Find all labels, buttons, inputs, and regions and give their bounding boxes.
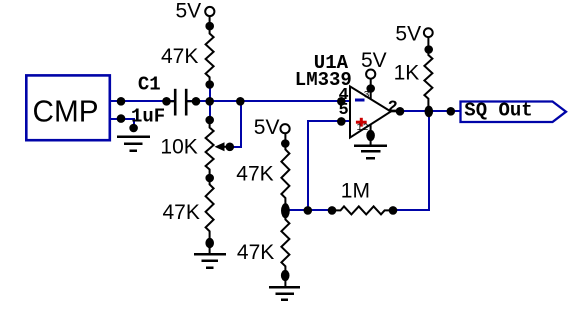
svg-text:47K: 47K — [237, 241, 274, 264]
svg-text:10K: 10K — [160, 136, 197, 159]
svg-text:5V: 5V — [395, 23, 421, 46]
svg-text:47K: 47K — [161, 45, 198, 68]
svg-text:47K: 47K — [163, 201, 200, 224]
svg-text:3: 3 — [364, 91, 370, 102]
svg-text:5V: 5V — [176, 0, 202, 22]
svg-text:12: 12 — [357, 123, 369, 134]
svg-text:C1: C1 — [138, 74, 161, 96]
svg-text:1M: 1M — [341, 180, 370, 203]
svg-text:SQ Out: SQ Out — [464, 100, 532, 122]
svg-text:1uF: 1uF — [131, 106, 165, 128]
svg-text:5V: 5V — [254, 116, 280, 139]
svg-text:1K: 1K — [394, 61, 420, 84]
svg-text:5: 5 — [339, 101, 349, 120]
svg-text:2: 2 — [388, 98, 398, 117]
svg-text:5V: 5V — [361, 49, 387, 72]
svg-text:CMP: CMP — [33, 93, 99, 128]
svg-text:47K: 47K — [236, 162, 273, 185]
